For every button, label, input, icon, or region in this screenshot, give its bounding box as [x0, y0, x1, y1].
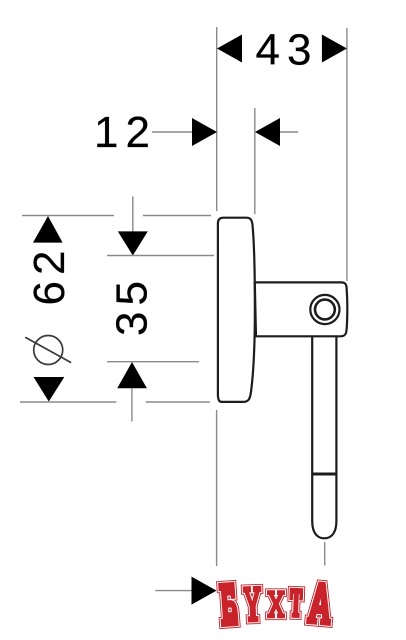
svg-text:62: 62: [25, 245, 74, 306]
wall plate outline (side view): [218, 218, 255, 402]
dim 12 line left: [152, 131, 193, 133]
dim 12 line right tail: [280, 131, 298, 133]
diameter symbol slash: [25, 337, 71, 362]
extension line left (wall plane, top): [216, 27, 218, 211]
arm outline: [255, 282, 348, 336]
rod joint line: [312, 473, 336, 476]
svg-text:12: 12: [94, 108, 157, 157]
rod outline: [312, 337, 336, 538]
screw inner circle: [315, 300, 335, 320]
screw outer circle: [310, 295, 339, 324]
svg-text:43: 43: [256, 25, 319, 74]
dim 62 bottom extension line (gap for 35 tail): [20, 401, 116, 403]
dim 35 bottom extension line: [107, 361, 199, 363]
extension line right of 43 dim: [346, 28, 348, 281]
bottom extension line (wall plane): [216, 410, 218, 566]
dim 62 top extension line (gap for 35 tail): [22, 215, 114, 217]
plate edge across arm: [254, 282, 256, 336]
dim 62 bottom arrow: [34, 377, 65, 402]
dim 35 top arrow: [118, 231, 148, 255]
dim 43 left arrow: [217, 35, 242, 63]
bottom extension line (rod axis): [324, 542, 326, 566]
dim 62 top arrow: [33, 216, 63, 243]
dim 12 left arrow: [192, 118, 217, 146]
dim 35 bottom tail: [131, 388, 133, 421]
extension line right of 12 dim: [254, 108, 256, 214]
dim 12 right arrow: [255, 118, 280, 146]
dim 35 top tail: [132, 196, 134, 232]
diameter symbol circle: [34, 336, 63, 365]
dim 43 right arrow: [322, 35, 347, 63]
dim 35 bottom arrow: [117, 362, 147, 388]
bottom dim line: [155, 590, 192, 592]
svg-text:35: 35: [108, 275, 157, 336]
bottom dim arrow: [192, 577, 217, 605]
dim 35 top extension line: [107, 255, 214, 257]
